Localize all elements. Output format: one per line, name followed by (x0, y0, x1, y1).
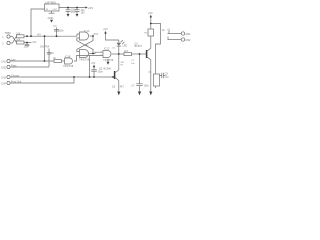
svg-text:+5V: +5V (148, 11, 153, 15)
svg-text:100n: 100n (97, 70, 103, 73)
svg-text:74HCT08: 74HCT08 (63, 65, 74, 68)
svg-text:4K7: 4K7 (124, 50, 129, 53)
svg-text:25V: 25V (71, 11, 76, 14)
svg-text:16V: 16V (81, 11, 86, 14)
svg-text:100n: 100n (24, 45, 30, 48)
svg-text:100n: 100n (58, 29, 64, 32)
svg-text:LM7805: LM7805 (45, 0, 56, 4)
svg-text:1K: 1K (53, 57, 56, 60)
svg-text:13: 13 (100, 55, 102, 57)
svg-text:CN1: CN1 (1, 60, 6, 63)
svg-text:9: 9 (89, 54, 90, 56)
svg-text:IC1B: IC1B (65, 56, 71, 59)
svg-text:Page: Page (11, 65, 17, 68)
svg-text:+5V: +5V (103, 27, 108, 31)
svg-text:+5V: +5V (88, 6, 93, 10)
svg-text:Low: Low (11, 59, 16, 62)
svg-text:Ground: Ground (11, 75, 20, 78)
svg-text:GN P04: GN P04 (40, 44, 50, 48)
svg-text:22p: 22p (165, 75, 170, 78)
svg-text:+5V: +5V (91, 62, 96, 65)
svg-text:OUT: OUT (53, 9, 58, 11)
svg-text:74HCT08: 74HCT08 (79, 58, 90, 61)
svg-text:BC547: BC547 (135, 45, 143, 48)
svg-text:MS2: MS2 (186, 39, 191, 42)
svg-text:TB5V: TB5V (5, 31, 12, 35)
svg-text:100n: 100n (144, 84, 150, 87)
svg-text:+5V: +5V (32, 41, 37, 44)
svg-text:GND: GND (48, 16, 54, 20)
svg-text:4K7: 4K7 (120, 86, 125, 89)
svg-text:IC1C: IC1C (104, 47, 110, 50)
svg-text:CN4: CN4 (1, 82, 6, 85)
svg-text:12: 12 (100, 51, 102, 53)
svg-text:BC546: BC546 (104, 68, 112, 71)
svg-text:+5V: +5V (37, 34, 42, 37)
svg-text:MS1: MS1 (186, 33, 191, 36)
svg-text:CN3: CN3 (1, 76, 6, 79)
svg-text:Prog Gnd: Prog Gnd (11, 81, 22, 84)
svg-text:PC1: PC1 (94, 33, 99, 36)
svg-text:IC1A: IC1A (84, 30, 90, 33)
svg-text:LED: LED (123, 45, 128, 48)
svg-text:1K: 1K (162, 29, 165, 32)
svg-text:10K: 10K (16, 39, 21, 42)
svg-text:74HCT08: 74HCT08 (103, 59, 114, 62)
svg-text:10K: 10K (16, 32, 21, 35)
svg-text:CN2: CN2 (1, 66, 6, 69)
